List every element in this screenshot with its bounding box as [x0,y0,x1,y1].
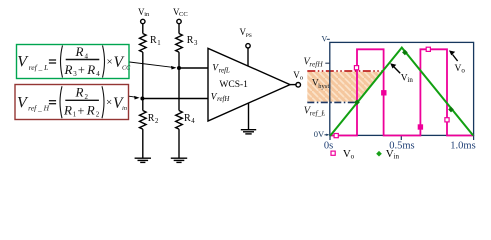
legend marker Vin [376,151,382,157]
svg-text:in: in [122,105,127,112]
svg-text:3: 3 [73,70,77,78]
annotation label Vin [401,74,414,85]
wire VCC to R3 [178,24,180,34]
plot x-axis ticks [330,135,474,140]
resistor R4 [176,111,196,130]
marker Vo rising edge 1 [354,66,358,70]
svg-text:2: 2 [155,118,159,125]
arrow from V_ref_L formula to node B [130,62,177,70]
node Vo output terminal [293,70,303,87]
legend marker Vo [331,151,335,155]
svg-text:ref _ L: ref _ L [29,63,49,72]
label V axis [322,35,330,44]
marker Vo origin [334,134,338,138]
wire node A to R2 [142,99,144,111]
svg-text:V: V [322,35,328,44]
svg-text:R: R [150,35,157,46]
svg-text:CC: CC [122,64,131,71]
svg-text:×: × [107,56,113,68]
label 0V [314,129,330,139]
svg-text:1.0ms: 1.0ms [450,140,475,151]
svg-text:o: o [300,75,303,82]
plot frame [330,42,474,135]
marker Vin at V_refL crossing [354,99,360,105]
marker Vo falling edge 1 [382,91,386,95]
svg-text:R: R [148,113,155,124]
svg-text:in: in [394,153,400,161]
svg-text:0s: 0s [324,140,333,151]
svg-text:ref _ H: ref _ H [28,103,50,112]
svg-text:in: in [407,76,413,84]
svg-text:refL: refL [219,68,230,75]
svg-text:4: 4 [191,118,195,125]
svg-text:hyst: hyst [318,83,329,90]
label V_hyst [312,79,329,90]
svg-text:R: R [75,44,84,59]
node B junction (V_refL node) [177,66,181,70]
svg-text:WCS-1: WCS-1 [219,80,248,90]
arrow from V_ref_H formula to node A [129,96,140,100]
wire comparator bottom to ground [248,103,250,129]
node VCC terminal [173,7,188,24]
wire R2 to ground [142,129,144,158]
ground under R4 [171,158,187,162]
svg-text:PS: PS [246,33,252,39]
svg-text:refH: refH [217,96,230,103]
plot V_refH threshold line (red dash-dot) [307,70,382,72]
annotation label Vo [455,64,466,75]
annotation arrow to Vin trace [390,63,400,73]
legend label Vo [343,148,355,160]
marker Vin near peak [402,50,408,56]
svg-text:0V: 0V [314,129,325,139]
svg-text:R: R [187,35,194,46]
marker Vo falling edge 2 [445,118,449,122]
wire R1 to node A [142,52,144,98]
wire R3 to node B [178,52,180,68]
svg-text:refH: refH [309,59,323,68]
waveform Vin (green triangle wave) [330,48,473,136]
wire V_PS to comparator top [247,48,249,66]
svg-text:1: 1 [157,40,160,47]
formula box V_ref_L (green border) [17,44,132,79]
formula box V_ref_H (maroon border) [15,85,129,120]
svg-text:1: 1 [73,111,77,119]
legend label Vin [386,148,400,160]
label V_refH [303,57,329,69]
marker Vo top pulse 2 [426,47,430,51]
svg-text:R: R [75,85,84,100]
node Vin terminal [138,7,150,24]
svg-text:R: R [184,113,191,124]
svg-text:R: R [64,62,73,77]
svg-text:CC: CC [179,11,188,18]
resistor R3 [176,34,198,53]
op-amp comparator U1 WCS-1 triangle [208,48,290,121]
waveform Vo (magenta square wave) [331,49,474,135]
svg-text:3: 3 [194,40,198,47]
svg-text:V: V [17,53,29,70]
plot hysteresis band V_hyst (hatched) [307,72,382,102]
ground under R2 [135,158,151,162]
svg-text:o: o [461,66,465,74]
marker Vo rising edge 2 [418,125,422,129]
svg-text:×: × [106,97,112,109]
svg-text:R: R [86,102,95,117]
svg-text:in: in [144,11,150,18]
svg-text:R: R [63,102,72,117]
label V_refL [304,106,326,118]
svg-text:+: + [78,63,85,77]
resistor R2 [140,111,160,130]
svg-text:4: 4 [96,70,100,78]
wire R4 to ground [178,129,180,158]
svg-text:R: R [86,62,95,77]
marker Vin on falling slope [448,107,454,113]
svg-text:+: + [77,104,84,118]
wire comparator output [290,84,297,86]
plot V_refL threshold line (navy dash-dot) [307,101,356,103]
node A junction (V_refH node) [140,97,144,101]
wire Vin to R1 [142,24,144,34]
wire node B to R4 [178,68,180,111]
wire node A to comparator V_refH input [143,98,208,100]
node V_PS supply terminal [240,27,252,48]
wire node B to comparator V_refL input [179,67,208,69]
resistor R1 [140,34,161,53]
ground under comparator [241,130,256,134]
svg-text:2: 2 [96,111,100,119]
svg-text:o: o [351,153,355,161]
annotation arrow to Vo trace [449,50,458,61]
